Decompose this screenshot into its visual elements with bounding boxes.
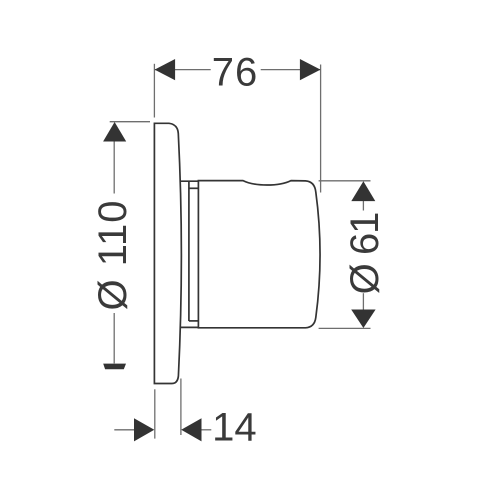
dimension line 14 left tail xyxy=(114,429,135,431)
extension line Ø61 bottom xyxy=(319,327,371,329)
arrowhead Ø61 down xyxy=(351,310,375,329)
extension line Ø110 top xyxy=(110,121,150,123)
collar band bottom edge xyxy=(189,320,199,322)
arrowhead Ø61 up xyxy=(351,181,375,201)
dimension line 76 right segment xyxy=(261,69,321,71)
extension line 76 right xyxy=(320,65,322,193)
svg-text:Ø61: Ø61 xyxy=(343,212,387,295)
dimension line 14 right tail xyxy=(201,429,211,431)
collar band vertical xyxy=(188,181,190,321)
dimension line 76 left segment xyxy=(155,69,211,71)
handle knob (Ø61, side view) xyxy=(198,181,320,328)
arrowhead Ø110 up xyxy=(103,122,126,142)
dimension line Ø110 upper segment xyxy=(113,141,115,194)
arrowhead Ø110 down (clipped trapezoid) xyxy=(103,364,126,370)
collar band top edge xyxy=(189,187,199,189)
dimension line Ø61 lower segment xyxy=(362,293,364,309)
escutcheon flange (Ø110 plate, side view) xyxy=(154,123,181,383)
extension line 14 right xyxy=(180,379,182,436)
dimension line Ø61 upper segment xyxy=(362,201,364,211)
svg-text:76: 76 xyxy=(212,51,259,95)
neck top edge xyxy=(181,180,199,182)
extension line 76 left xyxy=(153,64,155,118)
dimension line Ø110 lower segment xyxy=(113,313,115,363)
neck bottom edge xyxy=(181,326,199,328)
arrowhead 14 right xyxy=(181,418,201,441)
arrowhead 76 right xyxy=(300,59,321,80)
arrowhead 76 left xyxy=(155,59,176,80)
extension line Ø61 top xyxy=(319,180,371,182)
extension line 14 left xyxy=(154,389,156,438)
arrowhead 14 left xyxy=(134,418,154,441)
svg-text:14: 14 xyxy=(212,406,257,450)
svg-text:Ø 110: Ø 110 xyxy=(91,200,135,311)
